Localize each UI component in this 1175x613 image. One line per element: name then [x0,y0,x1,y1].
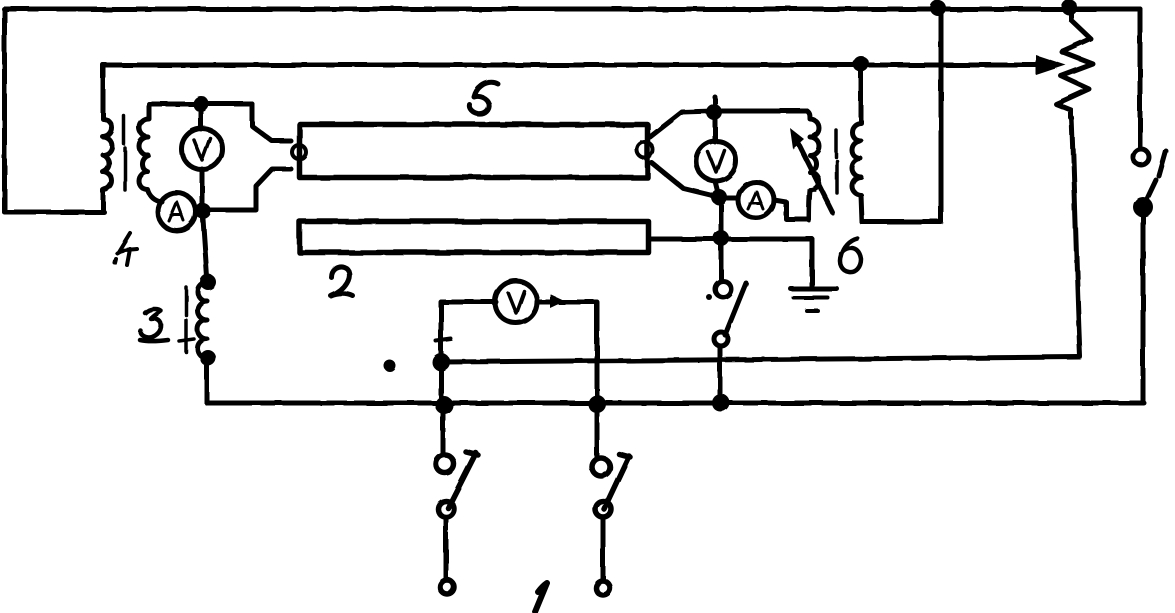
node junction on inner bus at transformer 6 riser [853,56,869,72]
wire S4 to terminal [601,517,606,580]
wire node to voltmeter V1 [199,104,204,129]
switch S1 top contact [1133,149,1149,165]
wire fork upper branch to electrode 5 left [201,104,291,141]
electrode tip right of furnace 5 [637,142,653,158]
wire inner supply bus [103,63,1036,68]
label 4 [115,233,137,265]
electrode tip left of furnace 5 [292,145,306,159]
electrode rod 2 [300,222,649,253]
wire top supply bus [4,7,1140,12]
wire down to ground [810,239,815,289]
switch S4 pivot contact [595,501,611,517]
voltmeter V1 [182,129,223,170]
label 6 [840,238,861,272]
wire left outer edge [2,9,7,212]
switch S4 blade [604,454,630,509]
wire reactor 3 to bottom bus [205,358,210,403]
ink speck left of junction [384,360,396,372]
node junction on top bus at riser x941 [930,0,946,16]
node junction on bottom bus C [712,394,730,412]
wire V3 right branch [537,302,597,403]
wire node to A2 [726,196,738,201]
transformer T6 secondary winding [852,64,862,222]
wire fork lower branch to electrode 5 left [203,169,291,210]
ink speck near S2 [706,294,712,300]
wire V2 to lower node [715,181,719,197]
node junction above voltmeter V1 [193,96,209,112]
transformer T6 core [836,130,837,193]
ground symbol [791,287,837,292]
voltmeter V3 [495,281,537,323]
node junction above voltmeter V2 [706,104,722,120]
node junction below V1 [195,203,211,219]
wire bottom bus [207,401,1144,406]
wire secondary top to node [149,102,252,107]
reactor 3 core [184,287,188,352]
node junction on ground branch [713,230,729,246]
wire right edge down to bottom bus [1141,215,1146,401]
switch S4 top contact [592,458,610,476]
switch S1 lower contact blob [1133,197,1153,217]
wire node down to switch S2 [719,205,724,280]
tick across reactor 3 core [179,339,194,341]
switch S3 lead [441,405,446,455]
wire voltmeter V1 to lower node [200,169,205,205]
wire S2 to bottom bus [718,346,723,403]
wire stub above node [713,97,718,111]
rheostat wiper arrowhead [1036,55,1066,75]
switch S3 pivot contact [438,501,454,517]
wire junction down to bottom bus [439,362,444,404]
furnace tube 5 [300,125,648,178]
switch S3 blade [448,452,478,508]
ammeter A1 [158,193,196,231]
voltmeter V2 [696,141,736,181]
wire T6 secondary bottom to riser [862,220,941,225]
wire fork lower branch right [652,163,717,197]
rheostat zigzag [1056,10,1093,118]
label 2 [331,266,353,296]
wire A2 to transformer 6 primary bottom [774,200,809,219]
current arrowhead on V3 right branch [550,294,565,308]
reactor 3 bottom node [200,350,216,366]
wire node to transformer 6 primary top [722,109,807,114]
wire right edge from top bus to switch [1138,9,1143,148]
switch S2 blade [725,283,746,335]
label 3 [140,309,168,341]
node junction below V2 [711,189,727,205]
node junction on bottom bus B [588,395,606,413]
transformer T4 primary winding [103,65,112,211]
wire outer bottom to transformer 4 primary [5,210,105,215]
wire junction to reactor 3 [203,219,207,277]
switch S1 blade [1146,151,1166,201]
wire mid horizontal return [441,357,1080,362]
label 5 [470,82,498,114]
transformer T6 primary winding [807,111,819,220]
current arrow tick on left branch [436,339,451,341]
node junction on bottom bus A [435,396,453,414]
label 1 [535,583,547,612]
node junction on top bus at rheostat [1061,0,1077,15]
transformer T4 core [124,116,125,190]
transformer T4 secondary winding [139,104,162,202]
wire rod 2 to ground branch [649,237,812,242]
wire S3 to terminal [444,517,449,580]
wire riser to top bus [939,9,944,222]
switch S2 lower contact [714,332,728,346]
ammeter A2 [738,182,774,218]
transformer T6 adjustment arrow [795,137,833,213]
wire node to voltmeter V2 [713,112,718,142]
switch S4 lead [595,404,600,458]
reactor 3 winding [198,282,208,358]
wire fork upper branch right [650,111,714,137]
reactor 3 top node [200,274,216,290]
wire rheostat bottom down [1072,118,1080,356]
terminal S4 [596,581,610,595]
switch S3 top contact [436,455,454,473]
wire V3 left branch [441,302,496,362]
node junction left of mid return [432,353,450,371]
switch S2 top contact [715,281,731,297]
terminal S3 [440,580,454,594]
